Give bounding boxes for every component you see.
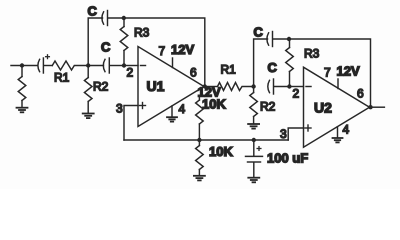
node bias 100uF (252, 138, 256, 142)
capacitor C mid stage2 (268, 79, 290, 94)
svg-text:4: 4 (343, 123, 350, 137)
plus mark input cap (46, 55, 50, 59)
node pin2 stage1 (122, 63, 126, 67)
resistor input termination (18, 66, 26, 108)
wire top rail stage1 (124, 18, 205, 87)
resistor R1 stage2 (218, 83, 254, 91)
capacitor C top stage1 (102, 11, 124, 26)
wire pin2 stage1 (124, 65, 138, 67)
svg-text:C: C (268, 60, 278, 75)
pin3 wire U2 (288, 128, 303, 140)
resistor 10K upper (196, 98, 204, 141)
svg-text:12V: 12V (171, 42, 194, 57)
svg-text:R3: R3 (304, 47, 320, 61)
svg-text:10K: 10K (202, 97, 226, 112)
svg-text:C: C (101, 40, 111, 55)
svg-text:2: 2 (293, 87, 300, 101)
svg-text:U2: U2 (314, 100, 332, 116)
node divider (197, 138, 201, 142)
node R3 top stage2 (287, 37, 291, 41)
minus mark U1 (141, 65, 146, 67)
svg-text:7: 7 (159, 44, 166, 58)
plus mark 100uF (257, 147, 261, 151)
ground U1 pin4 (167, 117, 177, 121)
svg-text:3: 3 (116, 102, 123, 116)
ground 10K lower (194, 176, 205, 181)
wire bias rail (124, 139, 288, 141)
resistor 10K lower (196, 140, 204, 175)
svg-text:3: 3 (280, 127, 287, 141)
wire top rail stage2 (289, 39, 371, 107)
capacitor input (polarized) (38, 58, 52, 73)
minus mark U2 (306, 86, 311, 88)
pin4 stub U2 (337, 127, 339, 138)
pin4 stub U1 (171, 106, 173, 117)
svg-text:U1: U1 (147, 78, 165, 94)
capacitor C mid stage1 (88, 58, 124, 73)
pin7 stub U2 (337, 79, 339, 89)
plus mark U2 (305, 125, 311, 131)
wire U2 output (371, 106, 385, 108)
op-amp U2 (304, 67, 370, 147)
wire input (11, 65, 38, 67)
svg-text:R3: R3 (134, 26, 150, 40)
ground input termination (17, 108, 28, 113)
node output U2 (368, 105, 372, 109)
svg-text:C: C (254, 25, 264, 40)
svg-text:7: 7 (324, 66, 331, 80)
svg-text:6: 6 (190, 66, 197, 80)
svg-text:C: C (88, 4, 98, 19)
plus mark U1 (140, 103, 146, 109)
node R3 top stage1 (122, 16, 126, 20)
svg-text:10K: 10K (209, 144, 233, 159)
node output U1 (203, 84, 207, 88)
wire U1 output (205, 86, 218, 88)
capacitor 100uF (246, 140, 263, 177)
svg-text:R2: R2 (93, 80, 109, 94)
svg-text:R1: R1 (54, 71, 70, 85)
wire feedback riser stage1 (88, 18, 102, 66)
resistor R3 stage2 (286, 39, 294, 87)
node input junction (20, 63, 24, 67)
svg-text:4: 4 (179, 102, 186, 116)
ground R2 stage2 (248, 124, 259, 129)
ground R2 stage1 (83, 114, 94, 119)
wire pin2 stage2 (289, 86, 303, 88)
resistor R3 stage1 (120, 18, 128, 66)
svg-text:R2: R2 (260, 100, 276, 114)
svg-text:100 uF: 100 uF (267, 151, 308, 166)
pin3 wire U1 (124, 106, 138, 141)
node pin2 stage2 (287, 84, 291, 88)
resistor R1 (52, 61, 88, 70)
resistor R2 (84, 66, 92, 114)
svg-text:12V: 12V (337, 64, 360, 79)
svg-text:6: 6 (357, 87, 364, 101)
node A stage1 (86, 63, 90, 67)
svg-text:2: 2 (127, 66, 134, 80)
op-amp U1 (138, 47, 204, 127)
svg-text:R1: R1 (221, 63, 237, 77)
pin7 stub U1 (172, 58, 174, 68)
node A stage2 (251, 84, 255, 88)
ground U2 pin4 (333, 138, 343, 142)
resistor R2 stage2 (250, 87, 258, 124)
capacitor C top stage2 (267, 32, 289, 47)
ground 100uF (248, 178, 259, 183)
wire feedback riser stage2 (254, 39, 268, 87)
